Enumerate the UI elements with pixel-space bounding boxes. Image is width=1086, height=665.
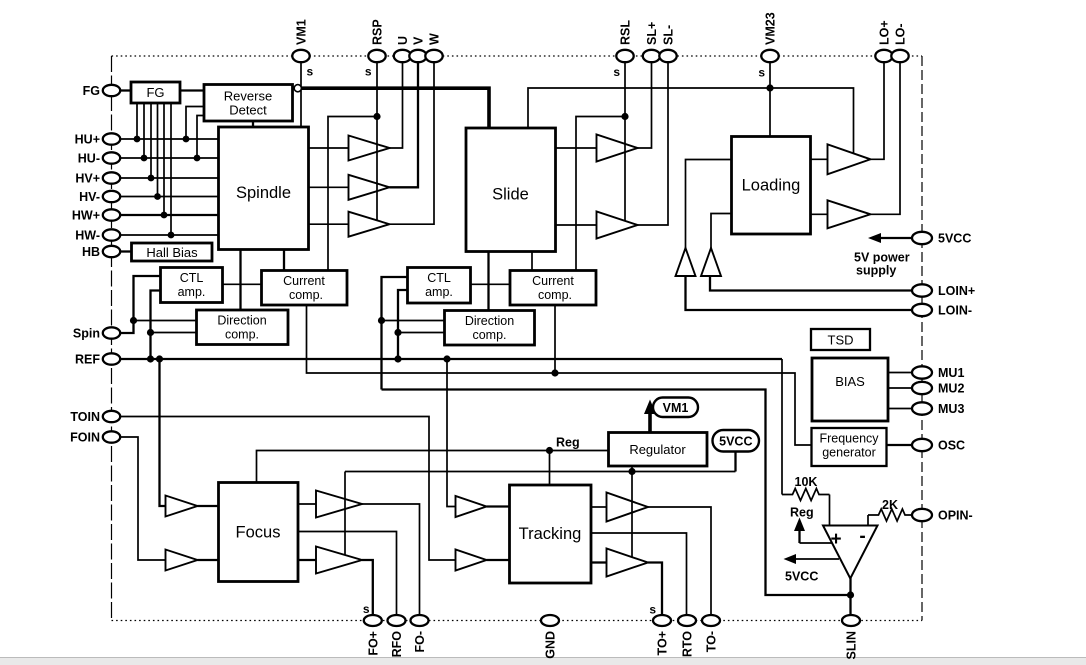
block Direction comp (spindle) (197, 310, 289, 345)
wire REF branch to Direction comp 2 (spindle) (151, 332, 197, 334)
wire REF line down to Focus input amp (160, 359, 166, 506)
svg-text:FOIN: FOIN (70, 431, 100, 445)
pin HB (103, 246, 120, 257)
wire Spindle output W to amp (309, 223, 349, 225)
wire BIAS to MU1 (888, 372, 914, 374)
svg-text:Direction: Direction (465, 314, 514, 328)
amp tracking input 2 (456, 550, 487, 571)
wire amp output to W pin (390, 61, 435, 224)
svg-text:supply: supply (856, 264, 896, 278)
pin W (425, 50, 442, 62)
wire tracking amp output to TO+ pin (648, 563, 662, 616)
svg-text:OSC: OSC (938, 439, 965, 453)
wire REF branch to CTL amp 2 (slide) (398, 290, 408, 359)
svg-text:Frequency: Frequency (819, 432, 879, 446)
wire slide control vertical to CTL amp (slide) (382, 277, 408, 390)
wire 5VCC oval stem (734, 452, 736, 472)
wire LOIN+ pin to buffer (710, 276, 914, 291)
wire Regulator to VM1 oval arrow (648, 411, 652, 433)
arrowhead 5VCC left (784, 554, 797, 564)
pin MU2 (912, 382, 932, 394)
svg-text:+: + (830, 529, 841, 550)
wire BIAS to MU3 (888, 408, 914, 410)
wire Focus output 3 to amp (298, 559, 316, 561)
svg-text:TO+: TO+ (656, 631, 670, 655)
node SLIN junction (847, 591, 854, 598)
svg-text:GND: GND (544, 631, 558, 659)
svg-text:FO-: FO- (413, 631, 427, 653)
pin HU+ (103, 133, 120, 144)
wire VM23 pin stem to Loading top (769, 61, 771, 138)
node Spin junction (130, 317, 137, 324)
wire tracking amp output to TO- pin (648, 507, 711, 615)
wire HW- line to Spindle (119, 234, 219, 236)
wire HU+ line to Spindle (119, 138, 219, 140)
svg-text:CTL: CTL (180, 271, 204, 285)
block TSD (811, 329, 870, 350)
svg-text:Current: Current (532, 274, 574, 288)
wire Tracking input amp 1 output (487, 505, 510, 507)
wire Focus input amp 1 output (198, 505, 219, 507)
svg-text:Reg: Reg (790, 506, 814, 520)
svg-text:5V power: 5V power (854, 251, 910, 265)
wire Tracking output 3 to amp (591, 561, 607, 563)
resistor 10K (782, 489, 830, 501)
svg-text:MU3: MU3 (938, 402, 964, 416)
svg-text:Tracking: Tracking (519, 525, 582, 543)
wire op-amp output to SLIN pin (849, 578, 851, 615)
wire FG sense line 5 (163, 103, 165, 215)
svg-text:s: s (613, 65, 620, 79)
svg-text:TSD: TSD (828, 333, 854, 348)
wire FG pin to FG block (119, 89, 131, 91)
wire HB pin to Hall Bias (119, 250, 132, 252)
pin MU1 (912, 366, 932, 378)
wire FG sense line 2 (143, 103, 145, 158)
block Hall Bias (132, 243, 213, 261)
block CTL amp (slide) (408, 268, 471, 304)
wire Slide bottom to Direction comp (487, 252, 489, 311)
pin HW+ (103, 209, 120, 220)
pin VM1 (292, 50, 309, 62)
pin RFO (388, 615, 406, 626)
wire Spindle output U to amp (309, 147, 349, 149)
svg-text:HU-: HU- (78, 152, 100, 166)
arrowhead Regulator VM1 (644, 400, 656, 415)
wire RSP pin stem (376, 61, 378, 221)
pin HU- (103, 152, 120, 163)
svg-text:Reverse: Reverse (224, 89, 272, 104)
svg-text:-: - (859, 526, 865, 547)
svg-text:LO+: LO+ (878, 20, 892, 45)
svg-text:Current: Current (283, 274, 325, 288)
block Frequency generator (812, 428, 887, 466)
svg-text:Regulator: Regulator (629, 442, 686, 457)
svg-text:s: s (649, 603, 656, 617)
wire HV- line to Spindle (119, 196, 219, 198)
IC boundary dashed border right (921, 56, 923, 621)
wire LOIN+ buffer output into Loading (711, 214, 732, 249)
wire Slide output 1 to amp (556, 147, 597, 149)
wire RSP branch to Current comp (328, 117, 377, 271)
wire FG sense line 1 (136, 103, 138, 139)
svg-text:VM1: VM1 (295, 19, 309, 45)
wire Tracking output 1 to amp (591, 506, 607, 508)
svg-text:RSP: RSP (371, 19, 385, 45)
svg-text:VM23: VM23 (764, 12, 778, 45)
pin LOIN- (912, 304, 932, 316)
wire REF branch down to Tracking input amp (447, 359, 456, 507)
svg-text:HV+: HV+ (75, 172, 100, 186)
amp loading LO+ (828, 144, 871, 174)
IC boundary dotted border top (112, 55, 923, 57)
node slide control junction (378, 317, 385, 324)
svg-text:LOIN+: LOIN+ (938, 284, 975, 298)
wire REF down to 10K resistor (781, 359, 783, 495)
wire HU- line to Spindle (119, 157, 219, 159)
arrowhead 5VCC supply (868, 233, 881, 243)
svg-text:2K: 2K (882, 498, 898, 512)
pin RTO (678, 615, 696, 626)
wire Reverse Detect input from HU+ (186, 107, 204, 140)
wire BIAS to MU2 (888, 387, 914, 389)
wire current sense bus to Frequency generator (307, 305, 812, 445)
svg-text:Detect: Detect (229, 103, 267, 118)
block Focus (219, 483, 299, 582)
wire HW+ line to Spindle (119, 214, 219, 216)
wire Spin pin to CTL amp input (119, 276, 161, 333)
pin HV- (103, 191, 120, 202)
wire 5VCC supply arrow (876, 237, 914, 239)
block Loading (732, 137, 811, 235)
wire Spin branch to Direction comp (134, 320, 197, 322)
arrowhead Reg up (794, 518, 805, 532)
wire Current comp (slide) down to bus (554, 305, 556, 373)
pin U (394, 50, 411, 62)
svg-text:SLIN: SLIN (845, 631, 859, 659)
amp loading buffer LOIN- (up) (676, 248, 696, 276)
amp loading buffer LOIN+ (up) (701, 248, 721, 276)
wire REF branch to Direction comp 2 (slide) (398, 332, 445, 334)
svg-text:comp.: comp. (225, 328, 259, 342)
wire FG block to Reverse Detect (180, 89, 204, 91)
svg-text:10K: 10K (795, 475, 818, 489)
pin V (409, 50, 426, 62)
svg-text:s: s (365, 65, 372, 79)
pin GND (541, 615, 559, 626)
wire Tracking input amp 2 output (487, 559, 510, 561)
wire 10K to op-amp plus input (829, 495, 831, 526)
svg-text:MU1: MU1 (938, 366, 964, 380)
pin OSC (912, 439, 932, 451)
pin REF (103, 353, 120, 364)
wire VM1 pin stem down to Spindle top (300, 61, 302, 128)
svg-text:HB: HB (82, 245, 100, 259)
node junction RD-HU- (194, 155, 201, 162)
wire slide control branch to Direction comp (slide) (382, 320, 445, 322)
wire Spindle output V to amp (309, 186, 349, 188)
wire slide amp output to SL+ pin (638, 61, 652, 148)
svg-text:Loading: Loading (742, 177, 801, 195)
pin TOIN (103, 411, 120, 422)
wire 5VCC rail to Focus amp (344, 472, 346, 556)
pin FO- (411, 615, 429, 626)
wire CTL amp to Current comp (slide) (471, 283, 511, 285)
pin LO+ (875, 50, 892, 62)
amp slide SL- (597, 212, 638, 239)
svg-text:LO-: LO- (894, 23, 908, 45)
svg-text:W: W (428, 33, 442, 45)
block CTL amp (spindle) (161, 268, 223, 303)
pin HV+ (103, 172, 120, 183)
wire Focus output 1 to amp (298, 503, 316, 505)
svg-text:5VCC: 5VCC (719, 435, 752, 449)
amp spindle U (349, 136, 390, 161)
svg-text:OPIN-: OPIN- (938, 509, 973, 523)
block Regulator (609, 433, 708, 467)
pin VM23 (761, 50, 778, 62)
wire LOIN- pin to buffer (686, 276, 914, 310)
svg-text:Direction: Direction (217, 314, 266, 328)
wire LOIN- buffer output into Loading (686, 160, 732, 249)
wire VM23 supply line from Slide top to Loading amp (528, 88, 854, 154)
amp focus input 1 (166, 496, 198, 517)
wire Reg line Focus top to Regulator (257, 451, 609, 483)
pin OPIN- (912, 509, 932, 521)
block Tracking (510, 485, 592, 583)
pin LOIN+ (912, 284, 932, 296)
wire 2K to op-amp minus input (867, 515, 869, 525)
svg-text:Spindle: Spindle (236, 184, 291, 202)
svg-text:amp.: amp. (178, 285, 206, 299)
svg-text:generator: generator (822, 446, 876, 460)
wire focus amp output to FO- pin (362, 504, 420, 615)
block Slide (466, 128, 556, 252)
wire Spindle bottom to Current comp (283, 250, 285, 271)
wire Loading output 2 to amp (811, 213, 828, 215)
svg-text:VM1: VM1 (663, 401, 689, 415)
node REF-CTL slide junction (394, 329, 401, 336)
svg-text:SL-: SL- (662, 25, 676, 45)
pin HW- (103, 229, 120, 240)
pin FOIN (103, 431, 120, 442)
wire Loading output 1 to amp (811, 158, 828, 160)
net label 5VCC oval (713, 430, 760, 452)
amp focus output FO+ (316, 547, 362, 574)
block Reverse Detect (204, 85, 293, 122)
amp tracking input 1 (456, 496, 487, 517)
IC boundary dashed border left (111, 56, 113, 621)
pin MU3 (912, 402, 932, 414)
svg-text:V: V (412, 36, 426, 45)
svg-text:RTO: RTO (681, 631, 695, 657)
svg-text:HV-: HV- (79, 190, 100, 204)
pin TO+ (653, 615, 671, 626)
block Current comp (slide) (510, 271, 596, 306)
amp slide SL+ (597, 135, 638, 162)
svg-text:TOIN: TOIN (70, 410, 100, 424)
wire Frequency generator to OSC pin (887, 444, 914, 446)
wire CTL amp to Current comp (spindle) (223, 283, 262, 285)
svg-text:U: U (396, 36, 410, 45)
op-amp U1 (823, 526, 878, 579)
svg-text:MU2: MU2 (938, 382, 964, 396)
node junction RD-HU+ (183, 136, 190, 143)
resistor 2K (868, 509, 914, 521)
svg-text:Reg: Reg (556, 436, 580, 450)
svg-text:amp.: amp. (425, 285, 453, 299)
amp loading LO- (828, 200, 871, 228)
svg-text:HW+: HW+ (72, 209, 100, 223)
wire 5VCC rail to Regulator bottom and Tracking amp (631, 466, 633, 557)
block BIAS (812, 358, 888, 421)
svg-text:HU+: HU+ (75, 133, 100, 147)
svg-text:FG: FG (83, 84, 100, 98)
IC boundary dotted border bottom (112, 620, 923, 622)
svg-text:Slide: Slide (492, 186, 529, 204)
wire Reverse Detect bottom stub to Spindle top (252, 121, 254, 128)
amp focus output FO- (316, 491, 362, 518)
amp focus input 2 (166, 550, 198, 571)
wire RSL pin stem (624, 61, 626, 221)
svg-text:REF: REF (75, 353, 100, 367)
pin TO- (702, 615, 720, 626)
wire amp output to V pin (390, 61, 419, 187)
svg-text:Spin: Spin (73, 327, 100, 341)
wire HV+ line to Spindle (119, 177, 219, 179)
pin FG (103, 85, 120, 96)
wire FOIN pin to Focus input amp (119, 437, 166, 560)
pin FO+ (364, 615, 382, 626)
pin 5VCC (912, 232, 932, 244)
wire Reg arrow into op-amp (800, 542, 835, 544)
pin SL- (659, 50, 676, 62)
block FG F1 (131, 82, 180, 103)
wire slide amp output to SL- pin (638, 61, 669, 225)
pin Spin (103, 327, 120, 338)
wire focus amp output to FO+ pin (362, 560, 373, 615)
node bus start open circle (294, 85, 301, 92)
wire FG sense line 6 (170, 103, 172, 235)
wire Slide bottom to Current comp (531, 252, 533, 271)
svg-text:SL+: SL+ (645, 22, 659, 45)
amp tracking output TO+ (607, 549, 649, 577)
amp spindle W (349, 212, 390, 237)
wire REF branch to CTL amp 2 (spindle) (151, 291, 161, 360)
wire Reg branch to Tracking top (549, 451, 551, 486)
svg-text:FG: FG (146, 85, 164, 100)
pin SL+ (643, 50, 660, 62)
svg-text:5VCC: 5VCC (938, 232, 971, 246)
block Spindle (219, 127, 309, 250)
wire Tracking output RTO (591, 533, 687, 615)
svg-text:comp.: comp. (472, 328, 506, 342)
svg-text:RFO: RFO (390, 631, 404, 658)
node RSL junction (621, 113, 628, 120)
svg-text:RSL: RSL (619, 20, 633, 45)
pin RSP (368, 50, 385, 62)
amp tracking output TO- (607, 493, 649, 522)
node current bus junction (551, 369, 558, 376)
svg-text:s: s (363, 602, 370, 616)
wire amp output to U pin (390, 61, 403, 148)
page footer strip (0, 658, 1086, 665)
svg-text:TO-: TO- (705, 631, 719, 652)
svg-text:FO+: FO+ (366, 631, 380, 656)
svg-text:CTL: CTL (427, 271, 451, 285)
wire FG sense line 4 (157, 103, 159, 197)
svg-text:Focus: Focus (236, 524, 281, 542)
svg-text:comp.: comp. (289, 288, 323, 302)
net label VM1 oval (653, 398, 698, 418)
wire 5VCC arrow at op-amp (791, 558, 839, 560)
pin LO- (891, 50, 908, 62)
wire RSL branch to Current comp (slide) (576, 117, 625, 271)
node VM23 junction (766, 84, 773, 91)
wire loading amp output to LO- pin (871, 61, 901, 214)
wire REF main line (119, 358, 782, 360)
wire Focus input amp 2 output (198, 559, 219, 561)
svg-text:HW-: HW- (75, 229, 100, 243)
wire FG sense line 3 (150, 103, 152, 178)
wire TOIN pin to Tracking input amp (119, 417, 456, 561)
pin SLIN (842, 615, 860, 626)
node 5VCC rail junction (628, 468, 635, 475)
svg-text:s: s (758, 66, 765, 80)
svg-text:s: s (307, 65, 314, 79)
wire Reverse Detect input from HU- (197, 116, 204, 159)
node RSP junction (373, 113, 380, 120)
wire Slide output 2 to amp (556, 224, 597, 226)
wire Focus output RFO (298, 532, 397, 616)
wire 5VCC supply rail (345, 471, 736, 473)
block Current comp (spindle) (262, 271, 348, 306)
amp spindle V (349, 175, 390, 200)
node Reg junction (546, 447, 553, 454)
svg-text:comp.: comp. (538, 288, 572, 302)
node REF-CTL junction (147, 329, 154, 336)
wire VM1 power bus (thick) to Slide top (293, 88, 489, 129)
svg-text:5VCC: 5VCC (785, 570, 818, 584)
wire slide control bus to op-amp output / SLIN (382, 390, 851, 596)
wire Spindle bottom to Direction comp (239, 250, 241, 311)
svg-text:Hall Bias: Hall Bias (146, 245, 198, 260)
wire Reg arrow stem (798, 528, 800, 543)
svg-text:BIAS: BIAS (835, 374, 865, 389)
svg-text:LOIN-: LOIN- (938, 304, 972, 318)
pin RSL (616, 50, 633, 62)
wire loading amp output to LO+ pin (871, 61, 885, 159)
block Direction comp (slide) (445, 311, 535, 346)
